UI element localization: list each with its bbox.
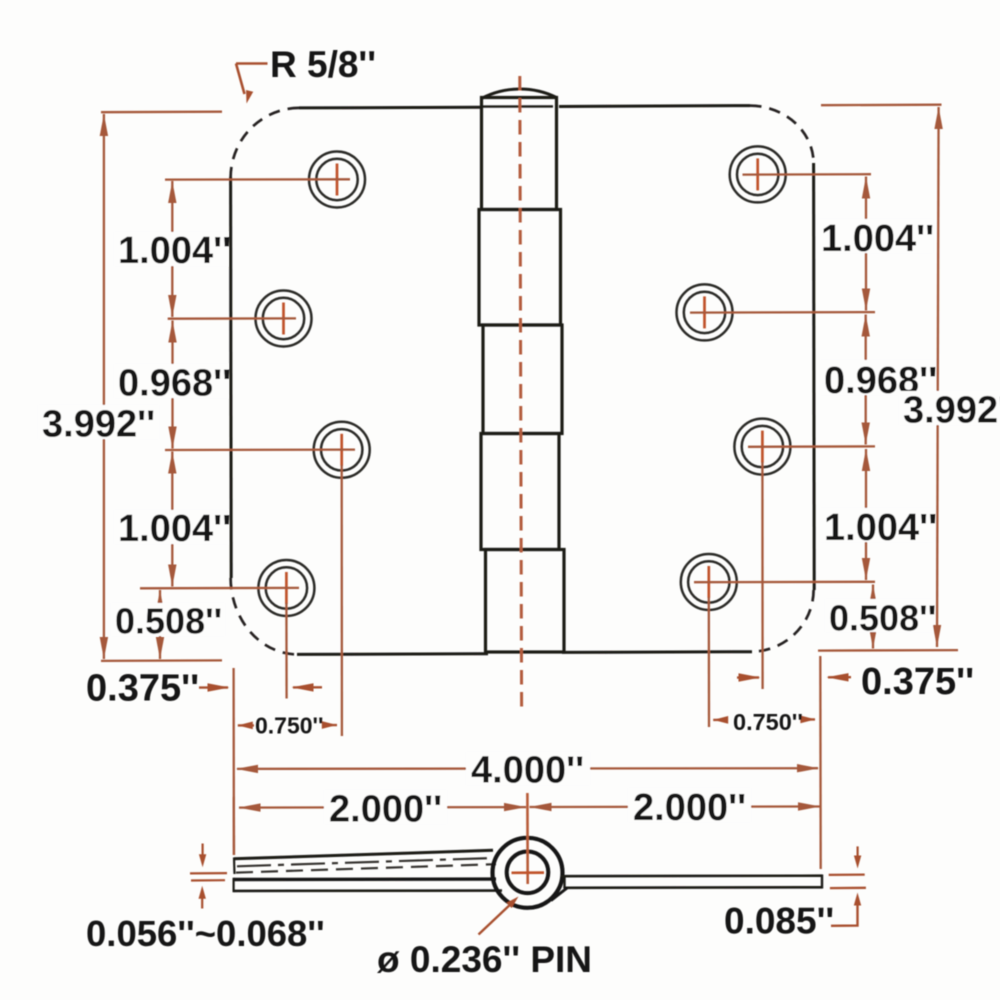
side view upper leaf center dash-dot line	[237, 858, 494, 866]
hole row line R3	[748, 445, 875, 448]
svg-text:0.085'': 0.085''	[724, 901, 834, 942]
label 3.992 left	[38, 404, 159, 446]
side view knuckle crosshair horizontal	[512, 871, 545, 874]
svg-text:2.000'': 2.000''	[329, 789, 442, 831]
right leaf top-right corner arc dashed	[750, 106, 814, 163]
svg-text:1.004'': 1.004''	[821, 218, 934, 260]
screw hole L3	[314, 422, 370, 478]
thickness dimension 0.085 right of side view	[829, 846, 866, 925]
right leaf right edge	[812, 163, 816, 590]
label 1.004 left top	[114, 230, 231, 272]
barrel knuckle 5	[486, 550, 565, 653]
hole row line R4	[694, 581, 875, 584]
label pin diameter	[377, 939, 592, 980]
label 3.992 right	[899, 390, 1000, 432]
label 0.056 to 0.068	[86, 913, 325, 954]
thickness dimension arrows left of side view	[190, 844, 227, 909]
svg-text:0.750'': 0.750''	[733, 709, 803, 735]
dimension arrows 0.750 right	[713, 716, 815, 724]
label 0.750 right	[733, 709, 803, 735]
dimension line 0.968 left	[168, 321, 176, 449]
label 0.375 left	[86, 668, 199, 710]
label 1.004 right bottom	[820, 507, 937, 549]
svg-text:ø 0.236'' PIN: ø 0.236'' PIN	[377, 939, 592, 980]
dimension line 4.000	[236, 764, 819, 773]
label R 5/8	[270, 44, 376, 85]
left leaf top edge	[299, 106, 482, 110]
screw hole R1	[730, 146, 786, 202]
svg-text:3.992'': 3.992''	[42, 404, 155, 446]
hole column extension L4	[285, 603, 288, 699]
extension line left leaf edge bottom	[232, 668, 235, 855]
svg-text:4.000'': 4.000''	[471, 750, 584, 792]
dimension line 2.000 right	[530, 802, 821, 811]
label 0.508 right	[825, 598, 936, 639]
label 4.000	[466, 750, 590, 792]
dimension line 3.992 left	[100, 114, 108, 659]
hole row line R1	[743, 173, 872, 176]
top extension line right	[821, 104, 942, 107]
side view upper leaf top edge	[234, 850, 493, 859]
svg-text:0.056''~0.068'': 0.056''~0.068''	[86, 913, 325, 954]
label 0.750 left	[255, 713, 324, 739]
svg-text:0.508'': 0.508''	[115, 601, 222, 642]
barrel knuckle 1	[482, 98, 557, 210]
dimension line 1.004 right bottom	[862, 449, 870, 580]
barrel center line dashed	[520, 76, 522, 708]
svg-text:2.000'': 2.000''	[633, 787, 746, 829]
extension line 2.000 left at side view	[233, 797, 235, 855]
dimension arrows 0.375 right	[737, 673, 851, 682]
bottom extension line right	[818, 649, 958, 652]
right leaf top edge	[559, 104, 750, 108]
screw hole L2	[256, 291, 312, 347]
barrel knuckle 4	[481, 434, 559, 550]
dimension line 0.508 right	[869, 585, 877, 649]
label 1.004 right top	[818, 218, 934, 260]
svg-text:3.992': 3.992'	[903, 390, 1000, 432]
label 2.000 right	[628, 787, 751, 829]
barrel knuckle 3	[483, 325, 562, 434]
svg-text:1.004'': 1.004''	[824, 507, 937, 549]
hole row line L3	[165, 448, 355, 451]
hole row line L2	[168, 317, 296, 320]
label 0.375 right	[861, 661, 974, 703]
pin leader line	[479, 894, 522, 935]
screw hole L4	[258, 560, 314, 616]
side view lower leaf	[234, 878, 502, 892]
svg-text:0.375'': 0.375''	[861, 661, 974, 703]
side view upper leaf left end cap	[233, 858, 236, 875]
left leaf bottom edge	[297, 652, 488, 656]
dimension line 3.992 right	[933, 107, 943, 647]
dimension arrows 0.750 left	[238, 721, 337, 729]
svg-text:1.004'': 1.004''	[118, 508, 231, 550]
label 2.000 left	[324, 789, 447, 831]
right leaf bottom edge	[562, 650, 752, 654]
dimension arrows 0.375 left	[199, 683, 322, 692]
label 0.508 left	[111, 601, 225, 642]
side view knuckle outer circle	[493, 838, 563, 908]
right leaf bottom-right corner arc dashed	[752, 590, 814, 652]
left leaf top-left corner arc dashed	[231, 108, 299, 177]
extension line right leaf edge bottom	[819, 656, 822, 869]
svg-text:0.968'': 0.968''	[118, 363, 231, 405]
hole row line L1	[165, 178, 350, 181]
svg-text:0.508'': 0.508''	[829, 598, 936, 639]
svg-text:0.375'': 0.375''	[86, 668, 199, 710]
side view right leaf	[551, 875, 823, 901]
svg-text:R 5/8'': R 5/8''	[270, 44, 376, 85]
svg-text:1.004'': 1.004''	[118, 230, 231, 272]
bottom extension line left	[101, 659, 222, 662]
top extension line left	[101, 111, 222, 114]
label 0.968 left	[114, 363, 231, 405]
dimension line 0.968 right	[862, 315, 870, 445]
radius leader R 5/8	[236, 64, 268, 105]
left leaf left edge	[229, 177, 233, 578]
label 0.968 right	[820, 360, 937, 402]
screw hole L1	[309, 152, 365, 208]
side view pin circle	[507, 852, 549, 894]
hole row line L4	[140, 587, 299, 590]
screw hole R3	[734, 419, 790, 475]
side view upper leaf bottom hidden edge	[236, 864, 496, 872]
label 0.085	[724, 901, 834, 942]
hole row line R2	[690, 311, 875, 314]
screw hole R2	[677, 284, 733, 340]
hole column extension L3	[341, 465, 343, 736]
side view knuckle center vertical line	[526, 793, 529, 884]
dimension line 1.004 right top	[862, 177, 870, 311]
svg-text:0.750'': 0.750''	[255, 713, 324, 739]
dimension line 1.004 left top	[168, 181, 176, 317]
dimension line 1.004 left bottom	[168, 452, 176, 587]
left leaf bottom-left corner arc dashed	[231, 578, 297, 654]
dimension line 0.508 left	[156, 590, 164, 659]
hole column extension R3	[761, 462, 763, 689]
label 1.004 left bottom	[114, 508, 231, 550]
barrel knuckle 2	[479, 210, 561, 326]
dimension line 2.000 left	[239, 803, 527, 812]
barrel dome cap	[482, 89, 557, 98]
hole column extension R4	[708, 597, 711, 727]
screw hole R4	[681, 554, 737, 610]
